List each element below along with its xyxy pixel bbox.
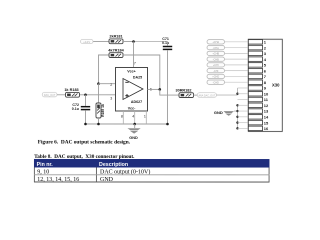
node pin15 (236, 121, 238, 123)
wire branch pins 9 10 (237, 88, 239, 95)
node C72 junction (84, 93, 87, 96)
wire DAC_OUT to R183 (57, 94, 65, 96)
svg-text:2: 2 (264, 45, 267, 50)
svg-text:16: 16 (264, 126, 269, 131)
node pin13 (236, 110, 238, 112)
connector pin 12 stub (237, 104, 248, 106)
net label pin5 (207, 63, 225, 67)
resistor R183 (64, 88, 79, 97)
connector pin 8 box (248, 80, 262, 85)
svg-text:7: 7 (264, 74, 267, 79)
wire output jog to R182 (160, 89, 179, 95)
wire pin6 output (148, 88, 160, 90)
connector pin 10 box (248, 92, 262, 97)
net label pin4 (207, 57, 225, 61)
connector pin 7 box (248, 74, 262, 79)
svg-text:12: 12 (264, 103, 269, 108)
connector pin 6 stub (225, 70, 249, 72)
wire opamp pin1 stub (145, 111, 147, 124)
svg-text:10: 10 (264, 91, 269, 96)
wire R185 bottom lead (97, 118, 99, 124)
net label DAC_OUT (42, 92, 57, 97)
wire R184 left (99, 55, 110, 84)
net label pin1 (207, 40, 225, 44)
node pin14 (236, 116, 238, 118)
svg-text:Description: Description (99, 162, 128, 168)
connector pin 6 box (248, 68, 262, 73)
node rail C71 (166, 123, 169, 126)
wire C71 bottom lead to rail (166, 50, 168, 124)
connector pin 11 box (248, 97, 262, 102)
svg-text:Figure 6. DAC output schemati: Figure 6. DAC output schematic design. (38, 139, 131, 145)
connector pin 13 box (248, 109, 262, 114)
resistor R181 (109, 35, 123, 44)
ground symbol right (214, 110, 238, 116)
wire C72 bottom lead (84, 110, 86, 124)
connector X30 (248, 39, 282, 131)
connector pin 15 box (248, 120, 262, 125)
svg-text:9: 9 (264, 86, 267, 91)
wire C71 top lead (167, 42, 169, 46)
net label pin3 (207, 51, 225, 55)
wire pin7 stub (133, 41, 135, 67)
wire ANA DAC_OUT to connector (217, 94, 238, 96)
resistor R185 (96, 103, 105, 118)
wire R183 to pin3 (80, 94, 116, 96)
table header band (34, 159, 270, 168)
connector pin 9 box (248, 86, 262, 91)
wire node to C71 (134, 40, 168, 42)
connector pin 4 stub (225, 58, 249, 60)
net label pin8 (207, 80, 225, 84)
connector pin 3 stub (225, 52, 249, 54)
wire GND bus to pins 12-16 (236, 105, 238, 128)
wire R184 feedback to output (123, 55, 160, 89)
ground symbol left (127, 124, 140, 140)
connector pin 2 stub (225, 47, 249, 49)
node pin10 junction (236, 93, 238, 95)
svg-text:8: 8 (264, 80, 267, 85)
wire C72 top lead (84, 95, 86, 106)
connector pin 8 stub (225, 81, 249, 83)
net label pin7 (207, 74, 225, 78)
connector pin 7 stub (225, 75, 249, 77)
node output junction (159, 88, 162, 91)
svg-text:Pin nr.: Pin nr. (37, 162, 54, 168)
connector pin 16 stub (237, 127, 248, 129)
svg-text:4: 4 (264, 57, 267, 62)
capacitor C71 (162, 37, 172, 49)
wire R181 to node (123, 40, 133, 42)
net label ANA DAC_OUT (197, 93, 216, 98)
svg-text:11: 11 (264, 97, 269, 102)
connector pin 5 stub (225, 64, 249, 66)
svg-text:5: 5 (264, 63, 267, 68)
connector pin 1 stub (225, 41, 249, 43)
capacitor C72 (72, 103, 90, 111)
connector pin 4 box (248, 57, 262, 62)
connector pin 16 box (248, 126, 262, 131)
op-amp DA25 AD627 (110, 61, 152, 118)
connector pin 3 box (248, 51, 262, 56)
connector pin 5 box (248, 63, 262, 68)
node rail C72 (84, 123, 87, 126)
net label pin2 (207, 45, 225, 49)
svg-text:6: 6 (264, 68, 267, 73)
wire +12V to R181 (93, 40, 109, 42)
connector pin 10 stub (238, 93, 249, 95)
connector pin 13 stub (237, 110, 248, 112)
connector pin 12 box (248, 103, 262, 108)
resistor R184 (108, 49, 124, 58)
wire opamp pin4 stub (134, 111, 136, 124)
svg-text:14: 14 (264, 115, 269, 120)
connector pin 15 stub (237, 122, 248, 124)
node pin2 junction (97, 82, 100, 85)
connector pin 2 box (248, 45, 262, 50)
connector pin 1 box (248, 40, 262, 45)
ground rail (85, 123, 167, 125)
connector pin 11 stub (237, 99, 248, 101)
svg-text:3: 3 (264, 51, 267, 56)
resistor R182 (175, 88, 193, 97)
wire to R185 (97, 84, 99, 103)
svg-text:1: 1 (264, 40, 267, 45)
node Vcc junction (132, 40, 135, 43)
connector pin 14 stub (237, 116, 248, 118)
wire pin2 stub (99, 83, 116, 85)
net label +12V (81, 39, 94, 44)
net label pin6 (207, 69, 225, 73)
connector pin 9 stub (238, 87, 249, 89)
connector pin 14 box (248, 115, 262, 120)
wire R182 to net label (194, 94, 198, 96)
node rail gnd (133, 123, 136, 126)
node pin12 (236, 104, 238, 106)
wire opamp pin8 stub (122, 111, 124, 124)
node pin16 (236, 127, 238, 129)
svg-text:13: 13 (264, 109, 269, 114)
svg-text:15: 15 (264, 120, 269, 125)
node rail R185 (97, 123, 100, 126)
table borders (34, 167, 270, 182)
